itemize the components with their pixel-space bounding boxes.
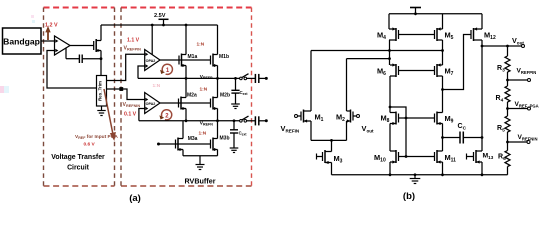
svg-text:0.6 V: 0.6 V [84,142,96,148]
capacitor Cc [443,137,461,139]
ground (C_ext bottom) [230,148,239,153]
svg-text:1:N: 1:N [199,131,207,137]
supply symbol top [410,7,421,9]
wire M8 source to M10 drain [389,124,391,152]
resistor chain top wire [507,46,509,56]
resistor R6 [507,142,509,151]
transistor M11 [435,150,443,163]
transistor M7 [435,64,443,77]
wire U1 output / gate bus M1a M1b [160,59,211,61]
wire M4 drain down to M6 [389,40,391,65]
svg-text:OPA2: OPA2 [146,102,156,106]
capacitor C_ext top [235,78,237,90]
svg-text:(a): (a) [129,193,141,204]
arrow 1.2V (dark red up arrow) [45,26,50,40]
wire M13 source down [481,162,483,175]
wire V_REFNIN tap to op-amp U2 [107,89,145,100]
wire bias jog M8 drain to mirror gates [390,107,406,157]
bias input terminal M3a [159,143,176,145]
wire M2b drain up [217,78,219,97]
wire M10 source down [389,162,391,175]
wire M2a source down [185,109,187,121]
transistor M1b [211,54,218,67]
svg-text:1:N: 1:N [153,83,161,89]
transistor M12 [471,28,482,41]
wire M12 source to rail [481,14,483,29]
transistor M2b [211,97,218,110]
gate bus M10 M11 [399,156,435,158]
gate bus M6 M7 [399,70,435,72]
bias port M3 [317,156,323,158]
svg-text:(b): (b) [403,191,415,202]
wire fold node M2 drain [347,58,391,60]
wire Vout line [482,45,522,47]
svg-text:Bandgap: Bandgap [3,37,40,47]
svg-text:M2b: M2b [220,92,230,98]
node pin square V_REFNIN [119,87,123,91]
wire rail to op-amp U1 supply [151,25,153,55]
transistor M3 [323,150,332,163]
arrow VREF for Input PGA [104,89,113,134]
resistor R4 [507,80,509,86]
op-amp U1 (OPA2 top) [145,50,160,71]
wire fold node M1 drain long [311,50,443,52]
transistor M13 [474,150,483,163]
wire M1b source down [217,66,219,79]
op-amp U2 (OPA2 bottom) [145,93,160,114]
wire M1 source down [310,121,312,140]
Bandgap block [3,28,42,54]
node VREFN rail [139,120,241,122]
transistor M0 (source follower NMOS) [94,39,101,52]
bias port M13 [467,156,474,158]
wire M7 drain down to M9 [442,76,444,113]
wire bandgap to op-amp A1 [41,40,55,42]
wire Vout node vertical [481,46,483,151]
feedback wire U2 [139,109,145,121]
ground (Res_Trim) [97,106,105,116]
wire ground bus b [332,174,508,176]
terminal VREFIN [298,115,302,117]
wire M3a source down [182,150,184,156]
wire tail to M3 [331,140,333,151]
wire M3b drain up [217,121,219,139]
svg-text:M1a: M1a [188,54,198,60]
output port cap VREFP [254,74,256,83]
wire M2 drain up [346,59,348,111]
transistor M2 [347,110,354,123]
wire M0 drain to rail [100,25,102,41]
svg-text:M3a: M3a [188,136,198,142]
wire M3 source down [331,163,333,175]
transistor M1 [301,110,311,123]
Res_Trim block [97,76,107,107]
ground (C_ext top) [231,104,240,109]
feedback wire U1 [138,66,145,78]
svg-text:2.5V: 2.5V [154,13,166,19]
wire tail bus M1 M2 [311,139,347,141]
transistor M8 [390,112,399,125]
transistor M5 [435,28,443,41]
wire M0 source down to Res_Trim [100,51,102,77]
wire M11 source down [442,162,444,175]
svg-text:Res_Trim: Res_Trim [98,81,103,101]
wire VREFP output [247,77,256,79]
svg-text:1:N: 1:N [200,86,208,92]
dashed box: Voltage Transfer Circuit [44,8,115,187]
node VREF_PGA [506,107,509,110]
node VREFP rail [138,77,241,79]
svg-text:0.1 V: 0.1 V [124,112,137,118]
wire M2 source down [346,121,348,140]
svg-text:1:N: 1:N [197,42,205,48]
dashed box: RVBuffer [121,8,252,187]
svg-text:M1b: M1b [219,54,229,60]
op-amp A1 (voltage transfer) [55,36,71,55]
svg-text:M2a: M2a [187,92,197,98]
gate bus M4 M5 [399,34,435,36]
wire M2b source down [217,109,219,121]
wire 2.5V rail [101,24,218,26]
node VREFPIN [506,79,509,82]
wire VREFN output [247,120,256,122]
wire M5 source to rail [442,14,444,29]
transistor M10 [390,150,399,163]
wire M7 drain to M12 gate [443,35,472,90]
wire M1a drain to rail [185,25,187,55]
circled arrow 1 [160,64,172,74]
resistor R5 [507,109,509,117]
transistor M1a [179,54,186,67]
circled arrow 2 [159,110,171,120]
wire M4 source to rail [388,14,390,29]
resistor R3 [505,56,510,72]
gate bus M3a M3b [176,143,211,145]
svg-text:Voltage Transfer: Voltage Transfer [51,154,105,161]
wire M1a source to VREFP [185,66,187,79]
transistor M4 [389,28,399,41]
transistor M3a [176,138,184,151]
switch S2 VREFN [240,120,243,123]
wire feedback A1 [47,51,97,89]
svg-text:RVBuffer: RVBuffer [184,177,215,186]
wire op-amp A1 output [70,45,94,47]
wire M1b drain to rail [217,25,219,55]
capacitor C_ext bottom [233,121,235,130]
source bus M3a M3b [183,155,218,157]
transistor M3b [211,138,218,151]
switch S1 VREFP [240,77,243,80]
svg-text:Circuit: Circuit [67,165,90,172]
transistor M2a [179,97,187,110]
svg-text:M3b: M3b [220,136,230,142]
wire M5 drain down to M7 [442,40,444,65]
transistor M6 [390,64,399,77]
svg-text:1.2 V: 1.2 V [45,23,58,29]
wire M2a drain up [185,78,187,97]
wire M3b source down [217,150,219,156]
ground (b) [410,175,421,184]
capacitor C0 feedback [82,58,101,60]
wire M1 drain up [310,51,312,112]
wire U2 output / gate bus M2a M2b [160,102,211,104]
wire VDD rail b [389,13,482,15]
screen artifact smudge [0,86,9,93]
wire M3a drain up [182,121,184,139]
wire M6 drain down to M8 [389,76,391,113]
ground (M3 pair) [196,156,205,170]
output port cap VREFN [254,116,256,125]
wire V_REFPIN tap to op-amp U1 [107,54,145,80]
svg-text:OPA2: OPA2 [146,59,156,63]
terminal Vout (input side) [353,115,357,117]
node VREFNIN [506,141,509,144]
transistor M9 [435,112,443,125]
gate bus M8 M9 [399,117,435,119]
wire M12 drain to Vout node [481,40,483,46]
node junction on source [100,57,103,60]
svg-text:1.1 V: 1.1 V [127,38,140,44]
wire M9 source to M11 drain [442,124,444,152]
